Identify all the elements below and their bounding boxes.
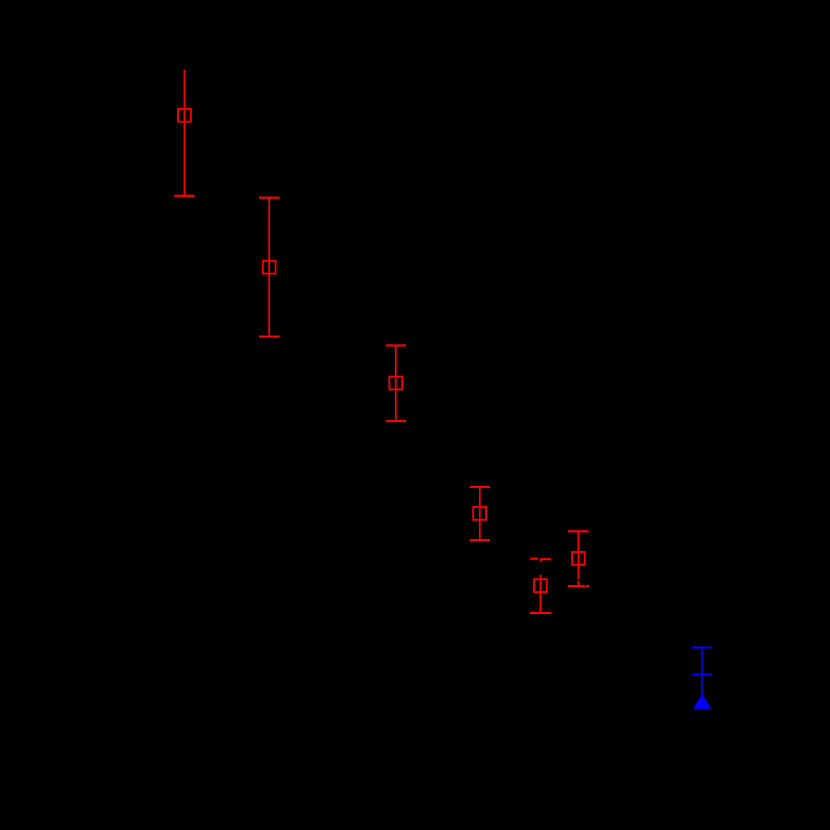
error bar 3 whisker with caps: [386, 345, 406, 421]
error bar 6 broken lower cap (short dash): [586, 585, 589, 587]
open square marker 4: [473, 507, 486, 520]
error bar 5 upper whisker stub: [540, 559, 542, 562]
open square marker 5: [534, 579, 547, 592]
error bar 6 lower whisker stub: [577, 581, 579, 586]
error bar 4 whisker with caps: [470, 487, 490, 540]
blue upper-limit whisker: [692, 648, 712, 698]
open square marker 1: [178, 109, 191, 122]
error bar 1 whisker (clipped at top, no upper cap): [174, 70, 195, 196]
error bar 5 broken upper cap (right dash): [540, 558, 551, 560]
error bar 5 broken upper cap (left dash): [530, 558, 538, 560]
open square marker 6: [572, 552, 585, 565]
error bar 6 whisker upper part with cap: [568, 531, 589, 579]
open square marker 2: [263, 261, 276, 274]
error bar 6 broken lower cap (long dash): [568, 585, 585, 587]
error bar 2 whisker with caps: [259, 198, 280, 337]
open square marker 3: [389, 377, 402, 390]
blue filled triangle marker: [693, 694, 711, 709]
error bar 5 main whisker and lower cap: [530, 575, 551, 613]
